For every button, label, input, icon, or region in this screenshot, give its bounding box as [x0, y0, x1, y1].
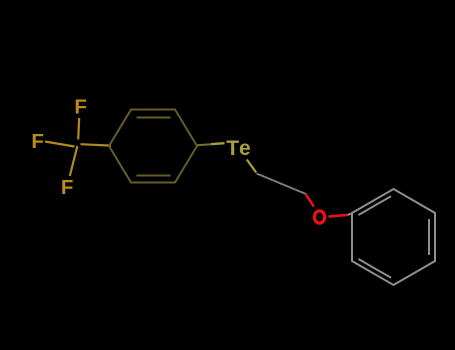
- svg-text:F: F: [31, 130, 44, 153]
- svg-text:Te: Te: [226, 137, 252, 160]
- svg-text:F: F: [61, 176, 74, 199]
- svg-text:F: F: [74, 96, 87, 119]
